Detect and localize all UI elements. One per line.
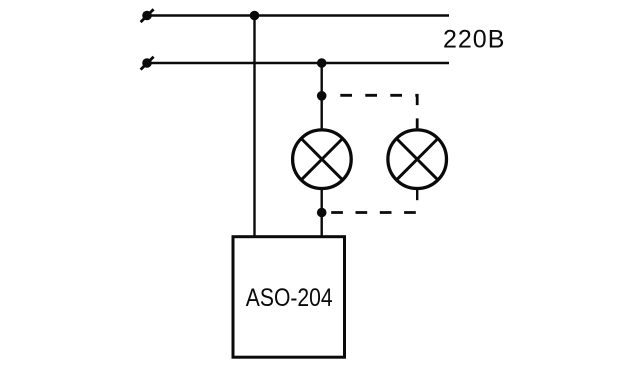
- dashed wire to optional lamp HL2 (bottom branch): [331, 211, 417, 214]
- wire line L1 (top supply line): [147, 14, 449, 16]
- node J3 (tap for dashed branch, top): [317, 91, 327, 101]
- svg-text:ASO-204: ASO-204: [246, 284, 333, 312]
- node J1 (junction on L1): [250, 11, 260, 21]
- wire from L1 to ASO-204 box: [253, 16, 255, 237]
- node J4 (tap for dashed branch, bottom): [317, 208, 327, 218]
- wire line L2 (second supply line): [147, 62, 449, 64]
- node J2 (junction on L2): [317, 58, 327, 68]
- terminal X2 (supply tap on L2): [141, 57, 154, 70]
- terminal X1 (supply tap on L1): [141, 9, 154, 22]
- svg-text:220В: 220В: [443, 26, 505, 54]
- wire stub below lamp HL2: [416, 189, 418, 201]
- wire from lamp HL1 to ASO-204 box: [321, 189, 323, 237]
- dashed wire to optional lamp HL2 (top branch): [340, 95, 417, 128]
- lamp HL2 (optional, dashed connection): [388, 130, 447, 189]
- device U1 box ASO-204: [233, 237, 345, 358]
- wire from L2 to lamp HL1: [321, 63, 323, 130]
- lamp HL1: [293, 130, 352, 189]
